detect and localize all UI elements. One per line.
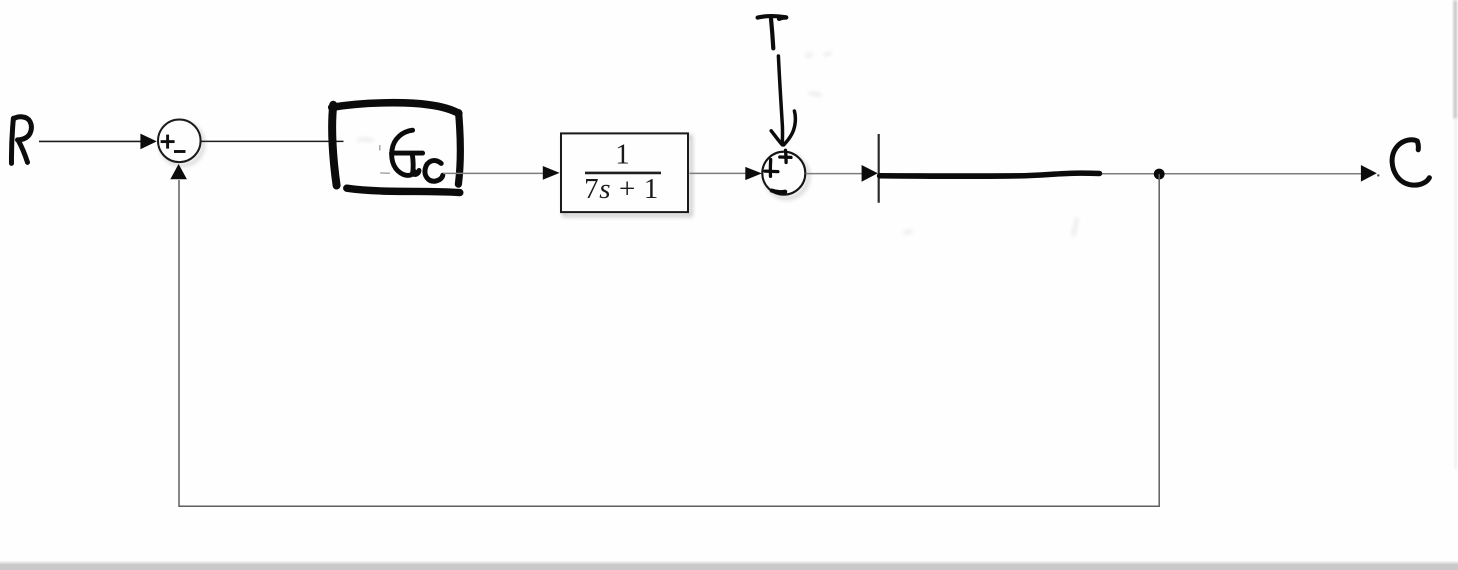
minus sign in S1 bbox=[174, 150, 186, 153]
bottom gray bar bbox=[0, 561, 1458, 565]
arrowhead into bottom of S1 bbox=[170, 164, 187, 179]
handwritten subscript c in block Gc bbox=[425, 161, 443, 182]
plant-box left edge bar bbox=[878, 134, 880, 203]
disturbance label T bbox=[758, 16, 787, 48]
feedback wire bottom run bbox=[178, 505, 1160, 507]
hand-drawn arrow from T into S2 bbox=[771, 56, 795, 145]
faint printed-box remnants under Gc bbox=[380, 145, 390, 173]
arrowhead into S1 bbox=[140, 134, 156, 150]
shadow of summing junction S2 bbox=[765, 155, 808, 198]
shadow of block G1 bbox=[564, 137, 691, 216]
wire S2 to plant bar bbox=[806, 173, 862, 175]
arrowhead into block G1 bbox=[543, 166, 560, 180]
wire R to summing junction S1 bbox=[39, 140, 141, 142]
plus sign in S1 bbox=[161, 135, 175, 149]
right-edge scrollbar track bbox=[1455, 119, 1457, 469]
handwritten plus at top of S2 bbox=[780, 150, 791, 162]
handwritten plus at left of S2 bbox=[765, 160, 778, 177]
wire S1 to block Gc bbox=[201, 140, 344, 142]
svg-text:7s + 1: 7s + 1 bbox=[584, 173, 659, 205]
hand-drawn block Gc: box strokes bbox=[332, 103, 461, 193]
output label C bbox=[1392, 140, 1429, 185]
right-edge scrollbar thumb bbox=[1454, 0, 1457, 119]
feedback wire down from node bbox=[1158, 174, 1160, 506]
wire G1 to summing junction S2 bbox=[690, 172, 746, 174]
handwritten dash at bottom of S2 bbox=[772, 191, 785, 193]
handwritten letter G in block Gc bbox=[392, 130, 423, 175]
arrowhead into plant bar bbox=[862, 165, 878, 182]
shadow of summing junction S1 bbox=[161, 123, 204, 166]
summing junction S1 bbox=[158, 120, 201, 163]
svg-text:1: 1 bbox=[615, 138, 630, 170]
wire Gc output to block G1 bbox=[443, 172, 547, 174]
block G1 box bbox=[561, 133, 688, 212]
arrowhead into S2 bbox=[745, 167, 762, 180]
summing junction S2 bbox=[762, 152, 805, 195]
ink speck after arrowhead bbox=[1377, 174, 1379, 176]
arrowhead before output label C bbox=[1361, 165, 1377, 182]
thick hand stroke over plant bbox=[880, 173, 1100, 176]
faint smudge right of T bbox=[358, 53, 1077, 236]
feedback wire rising into S1 bbox=[178, 180, 180, 506]
left-edge artifact mark bbox=[0, 196, 2, 208]
output node dot bbox=[1154, 169, 1165, 180]
long wire to output node and C bbox=[879, 173, 1362, 175]
input label R bbox=[11, 117, 31, 164]
fraction bar bbox=[585, 172, 661, 175]
